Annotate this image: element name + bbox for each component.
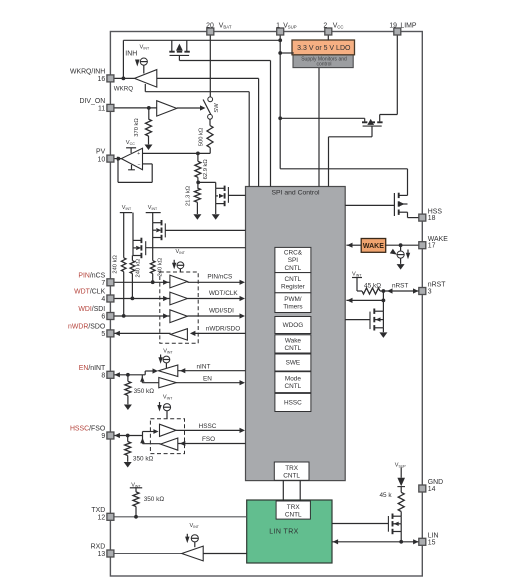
svg-text:RXD: RXD [91,544,106,551]
svg-text:350 kΩ: 350 kΩ [144,496,165,503]
svg-text:13: 13 [98,551,106,558]
svg-text:350 kΩ: 350 kΩ [134,388,155,395]
svg-text:18: 18 [428,215,436,222]
svg-text:CRC&: CRC& [284,250,303,257]
svg-text:14: 14 [428,486,436,493]
svg-text:1: 1 [276,23,280,30]
svg-text:CNTL: CNTL [285,512,302,519]
svg-text:Register: Register [281,284,306,291]
svg-text:FSO: FSO [202,436,215,443]
svg-text:3.3 V or 5 V LDO: 3.3 V or 5 V LDO [297,45,351,52]
svg-text:WKRQ/INH: WKRQ/INH [70,69,105,76]
svg-text:WDI/SDI: WDI/SDI [209,307,234,314]
svg-text:CNTL: CNTL [285,276,302,283]
svg-text:VCC: VCC [333,23,344,30]
svg-text:HSSC/FSO: HSSC/FSO [70,426,106,433]
svg-text:62.9 kΩ: 62.9 kΩ [203,159,209,180]
svg-text:EN/nINT: EN/nINT [79,365,106,372]
svg-text:WDT/CLK: WDT/CLK [74,289,105,296]
svg-text:21.3 kΩ: 21.3 kΩ [186,185,192,206]
svg-text:HSSC: HSSC [199,423,217,430]
svg-text:WDOG: WDOG [283,322,304,329]
svg-text:WDT/CLK: WDT/CLK [209,290,238,297]
svg-text:PIN/nCS: PIN/nCS [207,274,232,281]
svg-text:VSUP: VSUP [283,23,297,30]
svg-text:DIV_ON: DIV_ON [80,98,106,105]
svg-text:45 kΩ: 45 kΩ [364,282,381,289]
svg-text:SPI and Control: SPI and Control [272,190,320,197]
svg-text:nRST: nRST [392,282,408,289]
svg-text:INH: INH [125,50,137,57]
svg-text:PWM/: PWM/ [284,296,302,303]
svg-text:Mode: Mode [285,376,301,383]
svg-text:240 kΩ: 240 kΩ [158,257,164,276]
svg-text:19: 19 [389,23,397,30]
svg-text:17: 17 [428,243,436,250]
svg-text:TRX: TRX [285,465,299,472]
svg-text:EN: EN [203,376,212,383]
svg-text:15: 15 [428,539,436,546]
svg-text:TRX: TRX [287,504,301,511]
svg-text:240 kΩ: 240 kΩ [113,254,119,273]
svg-text:Timers: Timers [283,304,302,311]
svg-text:5: 5 [101,331,105,338]
svg-text:370 kΩ: 370 kΩ [134,118,140,137]
svg-text:CNTL: CNTL [283,473,300,480]
svg-text:16: 16 [98,76,106,83]
svg-text:WKRQ: WKRQ [114,85,133,92]
svg-text:control: control [316,62,331,68]
svg-text:10: 10 [98,156,106,163]
svg-text:CNTL: CNTL [285,345,302,352]
svg-text:4: 4 [101,296,105,303]
svg-text:12: 12 [98,515,106,522]
svg-text:9: 9 [101,433,105,440]
svg-text:3: 3 [428,289,432,296]
svg-text:PV: PV [96,149,106,156]
svg-text:Wake: Wake [285,337,302,344]
svg-text:SWE: SWE [286,360,301,367]
svg-text:2: 2 [323,23,327,30]
svg-text:45 k: 45 k [380,492,393,499]
svg-text:LIN TRX: LIN TRX [269,529,299,536]
svg-text:8: 8 [101,373,105,380]
svg-text:nINT: nINT [197,364,211,371]
svg-text:PIN/nCS: PIN/nCS [78,272,105,279]
svg-text:LIMP: LIMP [400,23,416,30]
svg-text:WDI/SDI: WDI/SDI [78,306,105,313]
svg-text:6: 6 [101,314,105,321]
svg-text:TXD: TXD [91,507,105,514]
svg-text:+: + [137,151,140,157]
svg-text:VBAT: VBAT [219,23,232,30]
svg-text:−: − [138,162,141,168]
svg-text:SPI: SPI [288,257,299,264]
svg-text:CNTL: CNTL [285,383,302,390]
svg-text:SW: SW [214,103,220,113]
svg-text:nWDR/SDO: nWDR/SDO [68,324,106,331]
svg-text:HSSC: HSSC [284,400,302,407]
svg-text:CNTL: CNTL [285,265,302,272]
svg-text:500 kΩ: 500 kΩ [199,127,205,146]
svg-text:11: 11 [98,106,105,113]
svg-text:240 kΩ: 240 kΩ [136,258,142,277]
svg-text:20: 20 [206,23,214,30]
svg-text:350 kΩ: 350 kΩ [133,456,154,463]
svg-text:WAKE: WAKE [363,243,384,250]
svg-text:nWDR/SDO: nWDR/SDO [206,325,240,332]
svg-text:7: 7 [101,280,105,287]
